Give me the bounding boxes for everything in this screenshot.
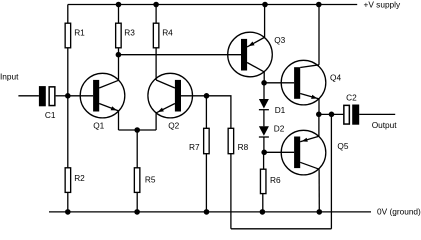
wire feedback vertical xyxy=(330,114,332,228)
svg-text:R2: R2 xyxy=(74,173,85,183)
svg-text:Q3: Q3 xyxy=(274,35,285,45)
transistor Q2 xyxy=(148,73,193,118)
wire Q4 emitter to output node xyxy=(318,99,320,115)
wire node B to Q5 base xyxy=(264,151,294,153)
junction R4 top rail xyxy=(153,2,159,8)
wire Input lead xyxy=(18,95,39,97)
wire R3 column top xyxy=(118,5,120,24)
wire Q3 collector down xyxy=(263,72,265,83)
wire R1 column top xyxy=(67,5,69,24)
diode D2 xyxy=(259,126,269,137)
wire emitter bus Q1-Q2 xyxy=(119,129,157,131)
wire node A to Q1 base xyxy=(68,95,93,97)
wire node to Q4 base xyxy=(264,82,294,84)
node feedback junction at output xyxy=(329,112,335,118)
svg-text:Q4: Q4 xyxy=(330,72,341,82)
svg-text:D1: D1 xyxy=(275,105,286,115)
wire C2 to output terminal xyxy=(359,113,395,115)
wire Q2 base to R7 node xyxy=(181,95,206,97)
svg-text:D2: D2 xyxy=(274,123,285,133)
ground junction R7 xyxy=(204,209,210,215)
wire Q2 emitter down xyxy=(155,113,157,130)
capacitor C2 xyxy=(344,105,359,125)
wire R3 bottom to junction xyxy=(118,48,120,55)
wire Q3 emitter to +V xyxy=(264,5,266,38)
transistor Q1 xyxy=(80,73,125,118)
capacitor C1 xyxy=(39,86,55,106)
wire 0V ground rail xyxy=(49,211,371,213)
svg-text:C2: C2 xyxy=(346,92,357,102)
wire R6 bottom to ground xyxy=(262,194,264,212)
transistor Q4 xyxy=(281,60,326,105)
wire +V supply rail xyxy=(68,4,357,6)
junction Q4 collector top rail xyxy=(316,2,322,8)
wire R5 bottom to ground xyxy=(136,192,138,212)
svg-text:R1: R1 xyxy=(74,27,85,37)
junction Q3 emitter top rail xyxy=(262,2,268,8)
diode D1 xyxy=(259,99,269,110)
wire Q5 emitter up to output node xyxy=(318,114,320,136)
wire Q1 emitter down xyxy=(118,111,120,130)
junction R3 top rail xyxy=(116,2,122,8)
node emitter bus / R5 junction xyxy=(134,127,140,133)
wire Q2 collector up to R4 xyxy=(155,48,157,80)
node output junction Q4/Q5 xyxy=(316,112,322,118)
wire C1 to node A xyxy=(56,95,68,97)
resistor R7 xyxy=(204,128,210,153)
svg-text:C1: C1 xyxy=(45,110,56,120)
svg-text:0V (ground): 0V (ground) xyxy=(377,206,421,216)
wire Q1 collector node to Q3 base xyxy=(119,54,242,56)
wire R5 top xyxy=(136,130,138,168)
wire node to D1 xyxy=(263,83,265,99)
wire D1 to D2 xyxy=(263,110,265,127)
svg-text:R7: R7 xyxy=(189,142,200,152)
svg-text:R6: R6 xyxy=(270,175,281,185)
svg-text:+V supply: +V supply xyxy=(364,0,402,10)
wire R2 to ground xyxy=(67,192,69,212)
resistor R1 xyxy=(65,23,71,48)
svg-text:Output: Output xyxy=(372,120,398,130)
wire R4 column top xyxy=(155,5,157,24)
svg-text:R5: R5 xyxy=(145,174,156,184)
svg-text:Q5: Q5 xyxy=(337,141,348,151)
ground junction R6 xyxy=(260,209,266,215)
transistor Q5 xyxy=(281,130,326,175)
wire R1 to node A xyxy=(67,48,69,96)
svg-text:Q1: Q1 xyxy=(93,121,104,131)
node B junction D2/R6/Q5 base xyxy=(261,150,267,156)
wire D2 to node B xyxy=(263,137,265,152)
transistor Q3 xyxy=(228,32,273,77)
svg-text:R8: R8 xyxy=(238,142,249,152)
svg-text:Input: Input xyxy=(0,71,19,81)
svg-text:R3: R3 xyxy=(124,27,135,37)
wire node A to R2 xyxy=(67,96,69,168)
node Q2 base / R7 / R8 junction xyxy=(204,93,210,99)
wire output node to C2 xyxy=(319,113,343,115)
resistor R8 xyxy=(228,128,234,153)
wire Q1 collector to R3 node xyxy=(118,55,120,81)
node A junction C1/R1/R2/Q1 base xyxy=(65,93,71,99)
wire node B to R6 xyxy=(263,152,265,169)
ground junction R2 xyxy=(65,209,71,215)
resistor R2 xyxy=(65,168,71,193)
node Q3 collector / Q4 base / D1 junction xyxy=(261,80,267,86)
node R3/Q1 collector junction xyxy=(116,52,122,58)
wire R7 top xyxy=(205,96,207,129)
resistor R5 xyxy=(134,168,140,193)
resistor R6 xyxy=(260,169,266,193)
wire Q4 collector to +V xyxy=(318,5,320,65)
wire R7 bottom to ground xyxy=(205,154,207,212)
resistor R3 xyxy=(116,23,122,48)
wire feedback bottom xyxy=(231,228,332,230)
svg-text:Q2: Q2 xyxy=(168,121,179,131)
wire Q5 collector to ground xyxy=(318,169,320,212)
resistor R4 xyxy=(153,23,159,48)
ground junction R5 xyxy=(134,209,140,215)
svg-text:R4: R4 xyxy=(162,27,173,37)
wire R8 bottom to feedback xyxy=(230,154,232,229)
wire node to R8 top xyxy=(207,96,231,129)
ground junction Q5 xyxy=(317,209,323,215)
